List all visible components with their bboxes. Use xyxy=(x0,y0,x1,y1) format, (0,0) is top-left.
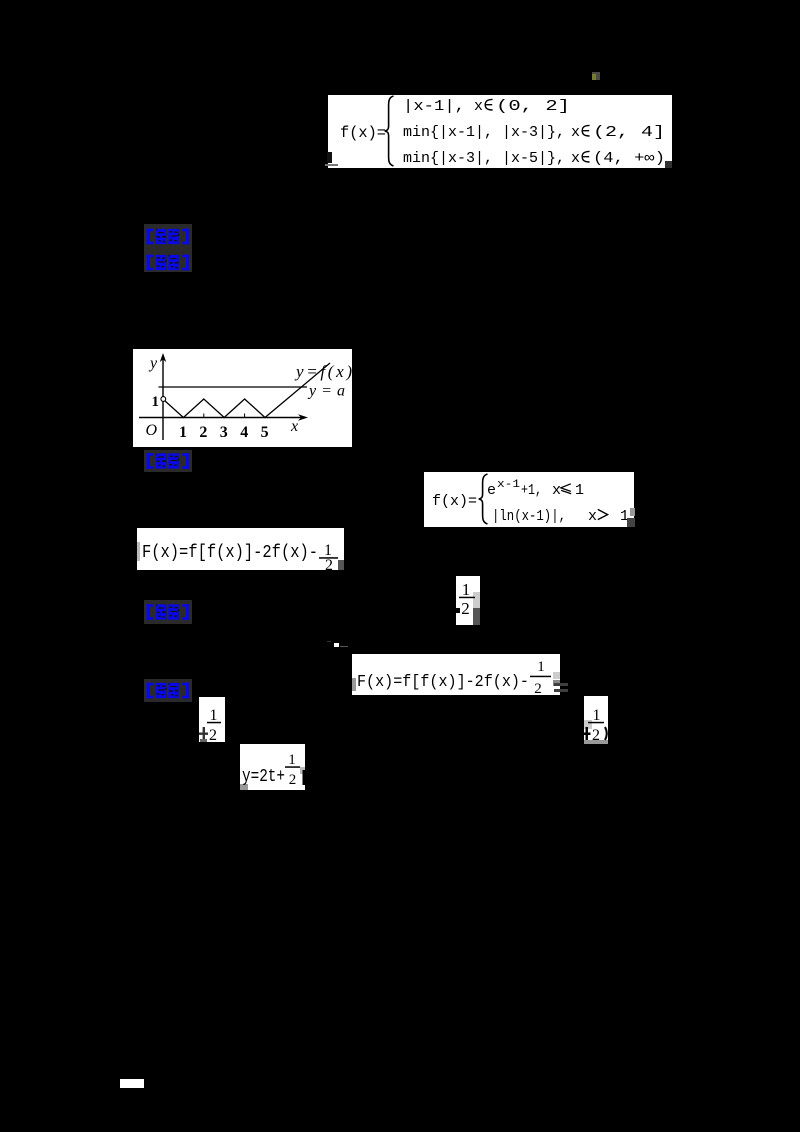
svg-text:e: e xyxy=(487,482,496,499)
blue label 4 xyxy=(144,600,192,624)
svg-text:1: 1 xyxy=(462,580,471,599)
formula box 5 xyxy=(240,744,305,790)
svg-text:x: x xyxy=(552,482,561,499)
svg-text:y: y xyxy=(148,355,158,372)
svg-text:x-1: x-1 xyxy=(497,479,520,491)
svg-text:F(x)=f[f(x)]-2f(x)-: F(x)=f[f(x)]-2f(x)- xyxy=(357,673,529,692)
svg-text:(0, 2]: (0, 2] xyxy=(496,98,570,115)
blue label 3 xyxy=(144,450,192,472)
svg-text:(2, 4]: (2, 4] xyxy=(593,124,665,141)
box1 artifacts xyxy=(327,152,332,163)
svg-text:O: O xyxy=(146,422,158,439)
svg-text:4: 4 xyxy=(240,424,248,441)
bottom white rectangle xyxy=(120,1079,144,1088)
svg-text:x: x xyxy=(290,418,298,435)
svg-text:2: 2 xyxy=(325,557,333,570)
svg-text:min{|x-3|, |x-5|},: min{|x-3|, |x-5|}, xyxy=(403,150,565,167)
formula box 1 xyxy=(328,95,672,168)
svg-text:|ln(x-1)|,: |ln(x-1)|, xyxy=(492,508,566,525)
graph box xyxy=(133,349,352,447)
svg-text:2: 2 xyxy=(592,727,600,744)
svg-text:(4, +∞): (4, +∞) xyxy=(593,150,665,167)
svg-text:1: 1 xyxy=(210,707,218,724)
tiny blob xyxy=(334,643,339,647)
svg-text:x: x xyxy=(571,150,580,167)
svg-text:|x-1|,: |x-1|, xyxy=(403,98,465,115)
svg-text:f(x)=: f(x)= xyxy=(340,124,386,142)
blue labels 1 and 2 xyxy=(144,224,192,272)
svg-text:x: x xyxy=(474,98,483,115)
svg-text:1: 1 xyxy=(537,659,545,675)
svg-text:x: x xyxy=(588,508,597,525)
fraction box 1 xyxy=(456,576,480,625)
svg-text:1: 1 xyxy=(179,424,187,441)
svg-text:x: x xyxy=(571,124,580,141)
blue label 5 xyxy=(144,679,192,702)
small icon xyxy=(592,72,600,80)
formula box 2 xyxy=(424,472,634,527)
svg-text:F(x)=f[f(x)]-2f(x)-: F(x)=f[f(x)]-2f(x)- xyxy=(142,543,318,563)
svg-text:2: 2 xyxy=(199,424,207,441)
svg-text:min{|x-1|, |x-3|},: min{|x-1|, |x-3|}, xyxy=(403,124,565,141)
svg-text:2: 2 xyxy=(289,772,297,788)
svg-text:5: 5 xyxy=(261,424,269,441)
fraction box 3 xyxy=(199,697,225,742)
svg-text:2: 2 xyxy=(209,727,217,742)
svg-text:y=a: y=a xyxy=(307,383,345,400)
formula box 4 xyxy=(352,654,560,695)
svg-text:y=f(x): y=f(x) xyxy=(294,362,352,381)
svg-text:1: 1 xyxy=(152,394,160,410)
fraction box 2 xyxy=(584,696,608,744)
svg-text:1: 1 xyxy=(575,482,584,499)
svg-text:1: 1 xyxy=(288,752,296,768)
svg-text:f(x)=: f(x)= xyxy=(432,493,477,510)
svg-text:+1,: +1, xyxy=(521,482,542,499)
formula box 3 xyxy=(137,528,344,570)
svg-text:2: 2 xyxy=(534,681,542,695)
svg-text:3: 3 xyxy=(220,424,228,441)
svg-text:2: 2 xyxy=(461,599,470,618)
svg-text:1: 1 xyxy=(593,707,601,724)
svg-text:y=2t+: y=2t+ xyxy=(242,767,285,787)
